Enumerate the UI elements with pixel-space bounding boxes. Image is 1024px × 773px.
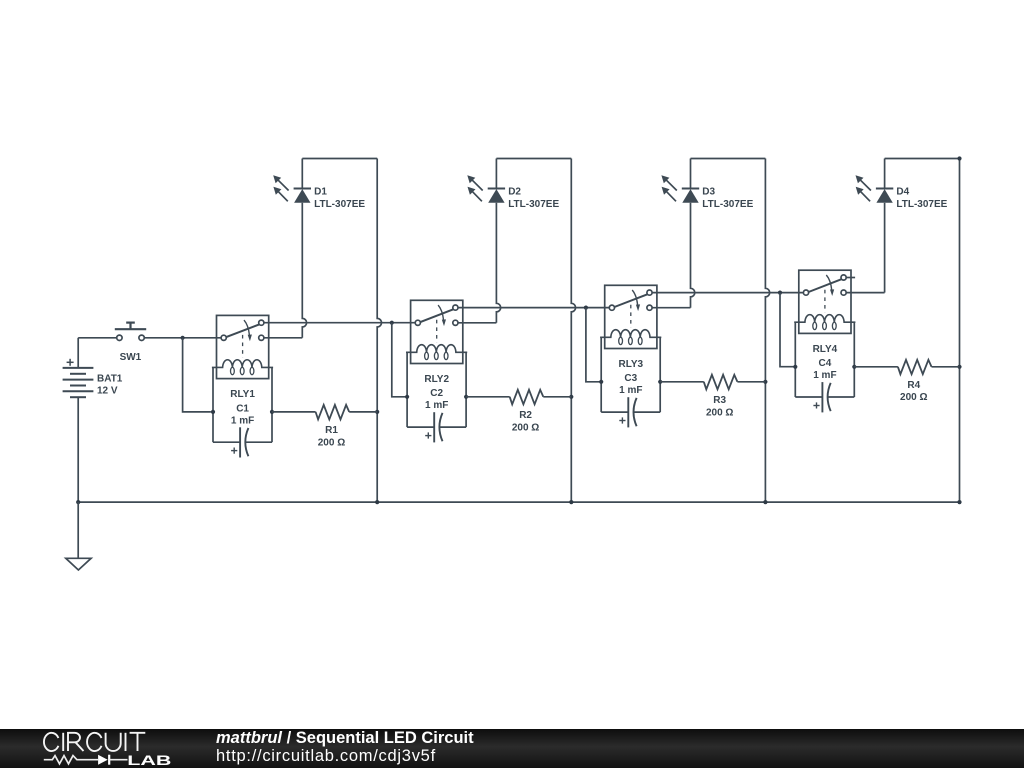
logo diode [98,755,108,765]
svg-text:RLY1: RLY1 [230,389,255,400]
wire R2 to rail [543,396,571,398]
junction C2 right [464,395,468,399]
svg-text:LAB: LAB [127,753,171,768]
svg-text:LTL-307EE: LTL-307EE [508,199,559,210]
svg-text:200 Ω: 200 Ω [318,437,345,448]
ground [66,558,91,570]
logo CIRCUIT (hand-drawn thin letters) [44,733,145,751]
svg-text:R3: R3 [713,395,726,406]
relay RLY3 [600,285,661,348]
junction battery/ground [76,500,80,504]
svg-text:D2: D2 [508,187,521,198]
junction rail/R2 [569,395,573,399]
wire D3 to relay [691,203,695,308]
wire LED loop top stage 3 [691,158,766,160]
junction C4 right [852,365,856,369]
junction node stage 3 input [584,306,588,310]
svg-text:1 mF: 1 mF [425,400,448,411]
wire right rail stage 3 [765,159,769,503]
wire to ground [77,502,79,558]
wire node A down to C1 loop [183,338,211,412]
capacitor C2 loop [407,352,466,442]
wire down to C4 loop [780,293,795,367]
junction C1 right [270,410,274,414]
wire SW1 to node A [144,337,221,339]
LED D4 [856,159,894,203]
wire right rail stage 1 [377,159,381,503]
wire relay RLY2 output to stage 3 [458,307,609,309]
svg-text:R4: R4 [907,380,920,391]
svg-text:LTL-307EE: LTL-307EE [702,199,753,210]
wire down to C2 loop [392,323,407,397]
svg-text:D3: D3 [702,187,715,198]
svg-text:D1: D1 [314,187,327,198]
LED D2 [467,159,505,203]
wire C1 to R1 [272,411,316,413]
svg-text:D4: D4 [896,187,909,198]
svg-text:12 V: 12 V [97,386,118,397]
junction C1 left [211,410,215,414]
node A junction [181,336,185,340]
resistor R2 [510,390,544,405]
battery BAT1 [63,338,94,502]
svg-text:R2: R2 [519,410,532,421]
resistor R4 [898,360,932,374]
junction node stage 2 input [390,321,394,325]
junction rail/ground rail stage 2 [569,500,573,504]
junction node stage 4 input [778,291,782,295]
wire bottom ground rail [78,501,959,503]
wire LED loop top stage 1 [302,158,377,160]
junction top right corner [957,156,961,160]
svg-text:1 mF: 1 mF [619,385,642,396]
LED D1 [273,159,311,203]
wire LED loop top stage 2 [496,158,571,160]
svg-text:200 Ω: 200 Ω [900,392,927,403]
svg-text:1 mF: 1 mF [231,415,254,426]
resistor R1 [316,405,350,420]
junction C3 right [658,380,662,384]
svg-text:200 Ω: 200 Ω [706,407,733,418]
svg-text:RLY3: RLY3 [618,359,643,370]
wire right rail stage 2 [571,159,575,503]
wire right rail stage 4 [959,159,961,503]
junction rail/R3 [763,380,767,384]
svg-text:LTL-307EE: LTL-307EE [896,199,947,210]
relay RLY4 [794,270,855,333]
wire relay RLY3 output to stage 4 [652,292,803,294]
logo LAB [127,753,171,769]
svg-text:C1: C1 [236,403,249,414]
wire R3 to rail [737,381,765,383]
wire battery to SW1 [78,337,117,339]
wire down to C3 loop [586,308,601,382]
wire D2 to relay [496,203,500,323]
svg-text:C3: C3 [624,373,637,384]
wire D1 to relay [302,203,306,338]
junction C4 left [793,365,797,369]
junction rail/R1 [375,410,379,414]
stub relay RLY4 top-right [846,277,855,279]
junction rail/ground rail stage 1 [375,500,379,504]
resistor R3 [704,375,738,390]
junction rail/R4 [957,365,961,369]
capacitor C1 loop [213,367,272,457]
logo resistor [44,756,98,764]
junction rail/ground rail stage 4 [957,500,961,504]
relay RLY1 [212,315,273,378]
capacitor C3 loop [601,337,660,427]
wire R4 to rail [932,366,960,368]
svg-text:BAT1: BAT1 [97,374,123,385]
svg-text:SW1: SW1 [120,352,142,363]
LED D3 [661,159,699,203]
svg-text:1 mF: 1 mF [813,370,836,381]
svg-text:200 Ω: 200 Ω [512,422,539,433]
svg-text:RLY4: RLY4 [813,344,838,355]
wire LED loop top stage 4 [885,158,960,160]
svg-text:C2: C2 [430,388,443,399]
svg-text:R1: R1 [325,425,338,436]
wire relay RLY1 output to stage 2 [264,322,415,324]
junction C2 left [405,395,409,399]
relay RLY2 [406,300,467,363]
wire R1 to rail [349,411,377,413]
wire C3 to R3 [660,381,704,383]
junction C3 left [599,380,603,384]
capacitor C4 loop [795,322,854,412]
svg-text:RLY2: RLY2 [424,374,449,385]
svg-text:LTL-307EE: LTL-307EE [314,199,365,210]
junction rail/ground rail stage 3 [763,500,767,504]
switch SW1 [115,323,146,341]
wire C2 to R2 [466,396,510,398]
wire C4 to R4 [854,366,898,368]
svg-text:C4: C4 [819,358,832,369]
wire D4 to relay [884,203,886,293]
